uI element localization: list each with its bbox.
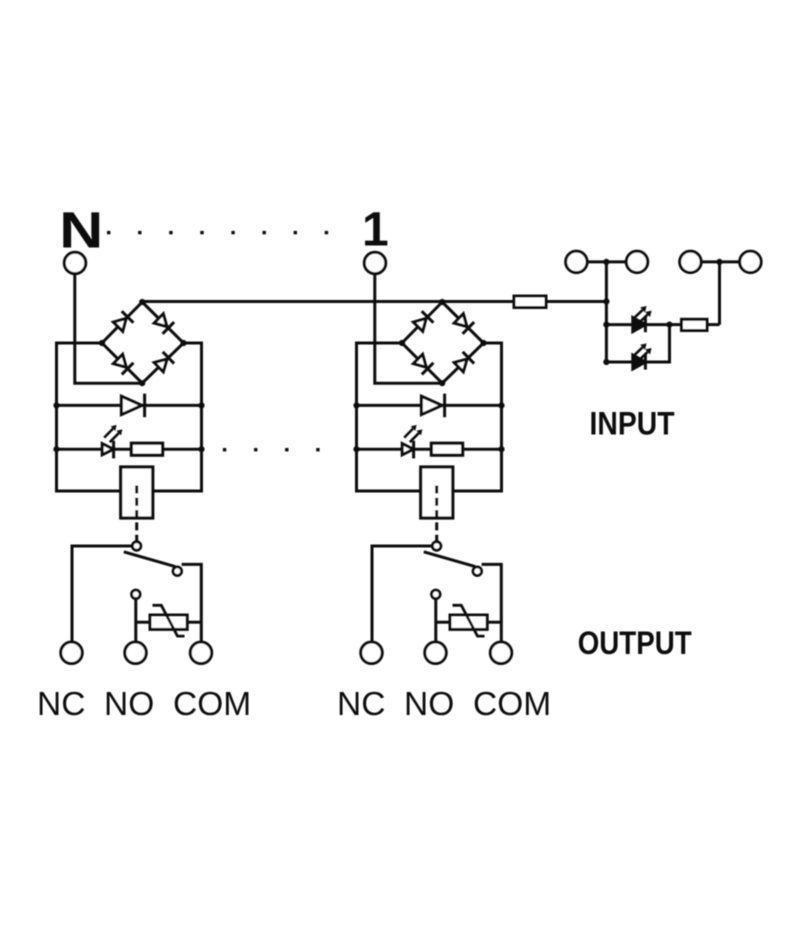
switch armature (channel 1) [124, 552, 175, 567]
bridge rectifier B2 [399, 299, 487, 386]
junction input pair B [716, 259, 722, 265]
series resistor R1 [131, 443, 162, 455]
wire input resistor to right vertical [707, 323, 720, 326]
series resistor R2 [431, 443, 462, 455]
input resistor R11 [682, 319, 708, 330]
wire right rail (channel 2) [500, 342, 503, 493]
terminal input A2 [626, 251, 648, 273]
wire pivot to NC terminal (channel 1) [72, 546, 132, 643]
NO lead contact (channel 1) [132, 590, 141, 599]
wire right rail (channel 1) [200, 342, 203, 493]
wire bridge right node to right rail (channel 1) [184, 342, 202, 345]
junction upper LED / resistor [666, 322, 672, 328]
junction right rail / flyback row (channel 1) [198, 402, 204, 408]
wire bottom row (channel 2) [357, 490, 502, 493]
wire NO contact to COM terminal (channel 2) [482, 564, 502, 643]
varistor RU2 [450, 605, 487, 636]
junction left rail / LED row (channel 2) [353, 446, 359, 452]
wire LED to input resistor [670, 323, 682, 326]
wire varistor left (channel 1) [136, 621, 150, 624]
NO fixed contact (channel 2) [473, 567, 482, 576]
input LED H11 (lower) [633, 343, 652, 369]
svg-text:OUTPUT: OUTPUT [578, 625, 692, 661]
dotted continuation line (top, N ... 1) [107, 231, 328, 234]
NO lead contact (channel 2) [432, 590, 441, 599]
common contact pivot (channel 1) [132, 542, 141, 551]
relay coil K1 [121, 467, 153, 518]
varistor RU1 [150, 605, 187, 636]
terminal 1 [364, 252, 386, 274]
wire varistor left (channel 2) [436, 621, 450, 624]
junction input bus / feed wire [603, 298, 609, 304]
junction input bus / upper LED [603, 322, 609, 328]
wire input LED lower row + return [606, 325, 669, 362]
terminal COM (channel 1) [190, 642, 212, 664]
terminal NC (channel 1) [61, 642, 83, 664]
NO fixed contact (channel 1) [173, 567, 182, 576]
terminal input A1 [566, 251, 588, 273]
flyback diode V1 [121, 394, 144, 418]
wire varistor right (channel 2) [487, 621, 501, 624]
junction input pair A [603, 259, 609, 265]
status LED H1 [102, 425, 122, 459]
status LED H2 [402, 425, 422, 459]
terminal NC (channel 2) [361, 642, 383, 664]
switch armature (channel 2) [424, 552, 475, 567]
svg-text:N: N [59, 202, 103, 259]
input LED H10 (upper) [633, 306, 652, 332]
wire NO lead to NO terminal (channel 1) [134, 599, 137, 643]
terminal input B2 [740, 251, 762, 273]
wire input terminal pair B [690, 260, 750, 263]
wire bridge right node to right rail (channel 2) [484, 342, 502, 345]
wire input vertical bus [605, 260, 608, 362]
junction right rail / flyback row (channel 2) [498, 402, 504, 408]
wire terminal to bridge bottom (channel 2) [375, 274, 442, 384]
wire varistor right (channel 1) [187, 621, 201, 624]
junction left rail / flyback row (channel 1) [53, 402, 59, 408]
coil armature dashed link (channel 1) [135, 486, 138, 541]
relay coil K2 [421, 467, 453, 518]
svg-text:NO: NO [404, 686, 454, 723]
wire flyback diode row (channel 2) [357, 404, 502, 407]
wire bridge left node to left rail (channel 1) [57, 342, 103, 345]
wire left rail (channel 2) [355, 342, 358, 493]
svg-text:1: 1 [362, 204, 389, 257]
wire bridge left node to left rail (channel 2) [357, 342, 403, 345]
wire bridge tops to input network [142, 300, 606, 303]
svg-text:COM: COM [473, 686, 551, 723]
wire input terminal pair A [576, 260, 637, 263]
junction left rail / LED row (channel 1) [53, 446, 59, 452]
wire terminal to bridge bottom (channel 1) [75, 274, 142, 384]
input series resistor R10 [514, 296, 546, 308]
coil armature dashed link (channel 2) [435, 486, 438, 541]
wire input LED upper row [606, 323, 669, 326]
wire NO contact to COM terminal (channel 1) [182, 564, 202, 643]
wire input right vertical [718, 260, 721, 324]
junction right rail / LED row (channel 2) [498, 446, 504, 452]
wire LED row (channel 2) [357, 448, 502, 451]
common contact pivot (channel 2) [432, 542, 441, 551]
terminal NO (channel 1) [125, 642, 147, 664]
svg-text:NC: NC [337, 686, 385, 723]
svg-text:NO: NO [104, 686, 154, 723]
terminal N [64, 252, 86, 274]
terminal NO (channel 2) [425, 642, 447, 664]
junction right rail / LED row (channel 1) [198, 446, 204, 452]
bridge rectifier B1 [99, 299, 187, 386]
svg-text:INPUT: INPUT [590, 406, 675, 442]
terminal COM (channel 2) [490, 642, 512, 664]
terminal input B1 [680, 251, 702, 273]
wire bottom row (channel 1) [57, 490, 202, 493]
dotted continuation line (middle, between channels) [223, 448, 320, 451]
svg-text:COM: COM [173, 686, 251, 723]
wire NO lead to NO terminal (channel 2) [434, 599, 437, 643]
flyback diode V2 [421, 394, 444, 418]
svg-text:NC: NC [37, 686, 85, 723]
wire flyback diode row (channel 1) [57, 404, 202, 407]
wire pivot to NC terminal (channel 2) [372, 546, 432, 643]
junction input bus / lower LED [603, 359, 609, 365]
wire left rail (channel 1) [55, 342, 58, 493]
junction left rail / flyback row (channel 2) [353, 402, 359, 408]
wire LED row (channel 1) [57, 448, 202, 451]
